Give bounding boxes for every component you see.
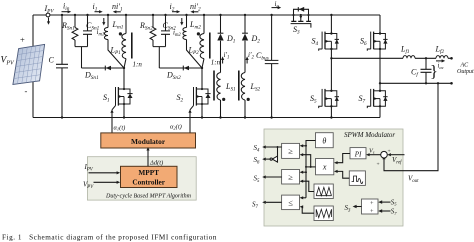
svg-text:+: + bbox=[388, 149, 391, 155]
svg-text:S3: S3 bbox=[293, 25, 300, 36]
wire comp1 bottom input bbox=[303, 155, 311, 167]
wire output bottom bbox=[380, 82, 452, 84]
wire drain S2 bbox=[201, 68, 203, 89]
wire VPV input bbox=[94, 181, 118, 183]
svg-text:LP1: LP1 bbox=[110, 46, 122, 57]
wire Vref input bbox=[391, 154, 405, 156]
svg-text:LS2: LS2 bbox=[250, 82, 261, 93]
svg-text:LP2: LP2 bbox=[188, 46, 200, 57]
box triangle wave 2 bbox=[314, 206, 333, 221]
core transformer1 bbox=[131, 33, 133, 59]
svg-text:Output: Output bbox=[457, 69, 474, 75]
wire gate S1 bbox=[112, 106, 116, 133]
wire error to PI bbox=[370, 154, 381, 156]
node drain1 bbox=[123, 67, 125, 69]
arrow i_ac bbox=[436, 60, 442, 62]
node bridge right midpoint bbox=[379, 82, 381, 84]
box triangle wave 1 bbox=[314, 184, 333, 199]
wire siggen to x bbox=[338, 171, 350, 178]
wire snubber2 RC bottom bbox=[153, 47, 166, 68]
transistor S3 bbox=[291, 7, 311, 28]
box MPPT controller bbox=[121, 166, 178, 187]
wire drain S1 bbox=[123, 68, 125, 89]
inverter to S6 bbox=[277, 147, 279, 156]
svg-text:Controller: Controller bbox=[132, 177, 165, 186]
panel SPWM modulator bbox=[264, 129, 403, 226]
wire comp2 top input bbox=[303, 171, 306, 173]
svg-text:D1: D1 bbox=[226, 34, 236, 45]
wire bottom rail bbox=[33, 117, 380, 119]
arrow delta-d bbox=[147, 150, 149, 167]
arrow i_m1 bbox=[103, 18, 105, 23]
wire S7 into sum bbox=[382, 210, 391, 212]
svg-text:VPV: VPV bbox=[1, 56, 15, 67]
core secondary1 bbox=[213, 71, 215, 101]
svg-text:Modulator: Modulator bbox=[131, 137, 166, 146]
svg-text:i′1: i′1 bbox=[224, 51, 230, 61]
wire comp1 top input bbox=[303, 145, 306, 147]
svg-text:AC: AC bbox=[460, 63, 470, 69]
polarity dot LP2 bbox=[197, 32, 200, 35]
svg-text:LS1: LS1 bbox=[225, 82, 236, 93]
svg-text:S7: S7 bbox=[359, 94, 366, 105]
svg-text:im1: im1 bbox=[97, 28, 105, 38]
svg-text:S2: S2 bbox=[177, 93, 184, 104]
diode D2 branch bbox=[242, 14, 248, 73]
transistor S6 bbox=[367, 32, 387, 51]
winding LS1 bbox=[217, 73, 222, 119]
wire snubber1 RC bottom bbox=[75, 47, 88, 68]
inductor Lf1 bbox=[403, 56, 415, 59]
svg-text:α1(t): α1(t) bbox=[114, 125, 126, 132]
core transformer2 bbox=[209, 33, 211, 59]
svg-text:+: + bbox=[20, 35, 25, 45]
box multiplier x bbox=[316, 159, 334, 175]
arrow i'_1 bbox=[222, 60, 224, 64]
box comparator2 bbox=[282, 170, 300, 185]
arrow i_m2 bbox=[181, 18, 183, 23]
wire output top bbox=[331, 57, 403, 59]
svg-text:α2(t): α2(t) bbox=[170, 124, 182, 131]
wire IPV input bbox=[89, 172, 118, 174]
svg-text:Lf2: Lf2 bbox=[435, 45, 445, 56]
svg-text:≥: ≥ bbox=[288, 172, 293, 182]
bus modulation signal bbox=[305, 146, 307, 198]
arrow i_1 bbox=[95, 11, 100, 13]
wire source S2 bbox=[201, 104, 203, 118]
wire comp2 output S5 bbox=[266, 176, 282, 178]
transistor S5 bbox=[319, 89, 339, 108]
svg-text:RSn1: RSn1 bbox=[61, 21, 75, 32]
svg-text:Δd(t): Δd(t) bbox=[149, 160, 163, 167]
box theta bbox=[316, 133, 334, 148]
wire PV vertical top bbox=[32, 15, 34, 46]
resistor RSn1 bbox=[72, 14, 78, 47]
wire theta input bbox=[306, 141, 316, 146]
wire x output bbox=[306, 166, 316, 168]
svg-text:Lm2: Lm2 bbox=[189, 20, 201, 31]
wire gate S2 bbox=[190, 106, 194, 133]
svg-text:SPWM Modulator: SPWM Modulator bbox=[344, 131, 395, 139]
svg-text:S5: S5 bbox=[254, 174, 261, 184]
node bridge left midpoint bbox=[330, 57, 332, 59]
svg-text:i′2: i′2 bbox=[248, 51, 254, 61]
wire S5 into sum bbox=[382, 201, 391, 203]
diode D1 branch bbox=[217, 14, 223, 73]
svg-text:S4: S4 bbox=[254, 144, 261, 154]
svg-text:im2: im2 bbox=[173, 29, 181, 39]
winding LP2 bbox=[200, 14, 205, 68]
svg-text:-: - bbox=[25, 86, 28, 96]
svg-text:x: x bbox=[322, 163, 327, 172]
arrow IPV bbox=[48, 18, 50, 22]
svg-text:Cbus: Cbus bbox=[256, 51, 269, 62]
arrow ni'_1 bbox=[116, 11, 121, 13]
inductor Lf2 bbox=[436, 56, 448, 59]
wire comp1 output S4 bbox=[266, 146, 282, 148]
arrow i_2 bbox=[172, 11, 177, 13]
svg-text:iin: iin bbox=[63, 2, 70, 13]
svg-text:Fig. 1 Schematic diagram of: Fig. 1 Schematic diagram of the proposed… bbox=[2, 234, 217, 242]
transistor S2 bbox=[194, 87, 211, 106]
svg-text:Lm1: Lm1 bbox=[112, 20, 124, 31]
svg-text:i1: i1 bbox=[93, 2, 98, 13]
wire comp3 top input bbox=[303, 197, 306, 199]
inductor Lm2 bbox=[183, 14, 202, 68]
winding LP1 bbox=[122, 14, 127, 68]
panel MPPT algorithm bbox=[87, 157, 196, 200]
wire Lf1 to Lf2 bbox=[415, 57, 436, 59]
wire top rail bbox=[33, 14, 380, 16]
svg-text:iac: iac bbox=[438, 63, 444, 70]
inductor Lm1 bbox=[104, 14, 124, 68]
wire snubber2 to drain bbox=[159, 67, 202, 69]
svg-text:DSn2: DSn2 bbox=[166, 71, 181, 82]
wire snubber1 to drain bbox=[82, 67, 125, 69]
arrow ni'_2 bbox=[194, 11, 199, 13]
wire PV vertical bottom bbox=[32, 82, 34, 118]
svg-text:Duty-cycle Based MPPT Algorith: Duty-cycle Based MPPT Algorithm bbox=[105, 193, 192, 199]
svg-text:ni′1: ni′1 bbox=[112, 2, 123, 13]
winding LS2 bbox=[241, 73, 246, 119]
box Modulator bbox=[101, 133, 196, 148]
wire feedback Vout bbox=[384, 83, 438, 170]
arrow i_o bbox=[272, 7, 279, 9]
wire output terminal top bbox=[448, 57, 452, 59]
polarity dot LP1 bbox=[119, 32, 122, 35]
node IPV bbox=[46, 13, 50, 17]
svg-text:IPV: IPV bbox=[44, 4, 55, 15]
wire bridge left leg bbox=[330, 15, 332, 118]
transistor S7 bbox=[367, 89, 387, 108]
svg-text:D2: D2 bbox=[251, 34, 261, 45]
svg-text:≥: ≥ bbox=[288, 146, 293, 156]
svg-text:Lf1: Lf1 bbox=[400, 45, 410, 56]
svg-text:PI: PI bbox=[354, 150, 362, 158]
box PI bbox=[350, 148, 366, 159]
arrow i'_2 bbox=[246, 60, 248, 64]
svg-text:i2: i2 bbox=[170, 2, 175, 13]
arrow i_in bbox=[62, 11, 69, 13]
svg-text:S1: S1 bbox=[103, 93, 110, 104]
svg-text:+: + bbox=[377, 162, 380, 168]
diode DSn1 bbox=[105, 66, 111, 71]
capacitor CSn1 bbox=[83, 14, 92, 47]
wire sum output S3 bbox=[357, 206, 362, 208]
svg-text:S5: S5 bbox=[310, 94, 317, 105]
wire bridge right leg bbox=[379, 15, 381, 118]
wire comp3 output S7 bbox=[266, 201, 282, 203]
wire PI to x bbox=[338, 154, 351, 163]
transistor S1 bbox=[116, 87, 133, 106]
svg-text:RSn2: RSn2 bbox=[139, 21, 153, 32]
core secondary2 bbox=[238, 71, 240, 101]
PV module panel bbox=[13, 44, 45, 84]
wire tri1 to comp2 bbox=[303, 181, 314, 191]
svg-text:ni′2: ni′2 bbox=[190, 2, 201, 13]
polarity dot LS1 bbox=[222, 98, 225, 101]
wire source S1 bbox=[123, 104, 125, 118]
box comparator3 bbox=[282, 195, 300, 210]
resistor RSn2 bbox=[150, 14, 156, 47]
svg-text:MPPT: MPPT bbox=[138, 168, 159, 177]
capacitor Cbus bbox=[265, 14, 279, 119]
capacitor CSn2 bbox=[161, 14, 170, 47]
svg-text:S6: S6 bbox=[254, 156, 261, 166]
svg-text:C: C bbox=[49, 56, 55, 65]
box signal generator bbox=[349, 171, 365, 186]
transistor S4 bbox=[319, 32, 339, 51]
svg-text:≤: ≤ bbox=[288, 197, 293, 207]
capacitor Cf bbox=[421, 57, 432, 84]
svg-text:S6: S6 bbox=[360, 37, 367, 48]
svg-text:1:n: 1:n bbox=[211, 59, 221, 67]
summing junction bbox=[381, 151, 388, 158]
box sum S3 bbox=[362, 199, 379, 214]
box comparator1 bbox=[282, 143, 300, 158]
svg-text:S4: S4 bbox=[312, 37, 319, 48]
svg-text:θ: θ bbox=[322, 137, 326, 146]
node drain2 bbox=[201, 67, 203, 69]
polarity dot LS2 bbox=[247, 98, 250, 101]
node feedback tap bbox=[437, 82, 439, 84]
svg-text:Cf: Cf bbox=[411, 68, 419, 79]
svg-text:DSn1: DSn1 bbox=[84, 71, 99, 82]
capacitor C bbox=[56, 14, 68, 119]
svg-text:Vout: Vout bbox=[408, 175, 419, 185]
svg-text:S7: S7 bbox=[252, 201, 259, 211]
wire tri2 to comp3 bbox=[302, 207, 314, 213]
svg-text:1:n: 1:n bbox=[133, 61, 143, 69]
diode DSn2 bbox=[183, 66, 189, 71]
